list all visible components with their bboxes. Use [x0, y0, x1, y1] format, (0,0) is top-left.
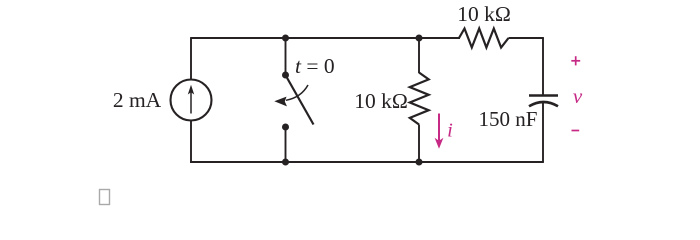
switch S1 actuation arrow	[274, 85, 308, 106]
current source I1 arrow	[188, 85, 194, 114]
switch S1 blade	[286, 76, 314, 125]
wire: bottom rail	[190, 161, 544, 163]
node dot: bottom rail at R1 branch	[416, 159, 423, 166]
node dot: top rail at R1 branch	[416, 35, 423, 42]
svg-text:t = 0: t = 0	[295, 54, 335, 78]
checkbox square bottom-left	[100, 190, 110, 205]
label: + polarity	[571, 56, 580, 65]
svg-text:150 nF: 150 nF	[479, 107, 538, 131]
label: 2 mA	[113, 88, 162, 112]
svg-text:10 kΩ: 10 kΩ	[354, 89, 408, 113]
svg-text:10 kΩ: 10 kΩ	[457, 2, 511, 26]
label: 10 kOhm (R2)	[457, 2, 511, 26]
label: 150 nF	[479, 107, 538, 131]
wire: R1 branch top stub	[418, 38, 420, 73]
wire: left rail lower segment	[190, 121, 192, 163]
svg-text:i: i	[447, 120, 453, 142]
label: v	[573, 84, 583, 108]
label: i	[447, 120, 453, 142]
wire: switch branch top stub	[285, 38, 287, 75]
wire: right rail upper segment	[542, 38, 544, 95]
wire: right rail lower segment	[542, 102, 544, 162]
node dot: top rail at switch branch	[282, 35, 289, 42]
wire: left rail upper segment	[190, 37, 192, 79]
node dot: bottom rail at switch branch	[282, 159, 289, 166]
label: t = 0	[295, 54, 335, 78]
capacitor C1 bottom plate (curved)	[529, 102, 558, 106]
resistor R2 (10 kOhm horizontal) zigzag	[459, 29, 509, 48]
label: - polarity	[572, 130, 580, 132]
label: 10 kOhm (R1)	[354, 89, 408, 113]
wire: switch branch bottom stub	[285, 127, 287, 162]
wire: top rail left of R2	[191, 37, 460, 39]
current arrow i (magenta)	[435, 114, 444, 149]
switch S1 bottom contact dot	[282, 124, 289, 131]
switch S1 top contact dot	[282, 72, 289, 79]
wire: R1 branch bottom stub	[418, 125, 420, 163]
wire: top rail right of R2	[509, 37, 544, 39]
svg-text:v: v	[573, 84, 583, 108]
resistor R1 (10 kOhm vertical) zigzag	[410, 73, 429, 125]
svg-text:2 mA: 2 mA	[113, 88, 162, 112]
capacitor C1 top plate	[529, 94, 558, 97]
current source I1 circle	[171, 80, 212, 121]
